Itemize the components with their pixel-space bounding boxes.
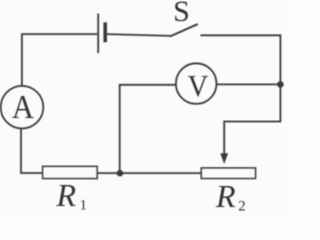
svg-text:A: A [12, 88, 35, 126]
svg-text:S: S [173, 0, 190, 28]
svg-text:R: R [56, 177, 77, 213]
svg-text:1: 1 [80, 198, 88, 214]
svg-text:2: 2 [238, 198, 246, 214]
svg-text:V: V [188, 69, 209, 103]
svg-text:R: R [215, 178, 236, 214]
